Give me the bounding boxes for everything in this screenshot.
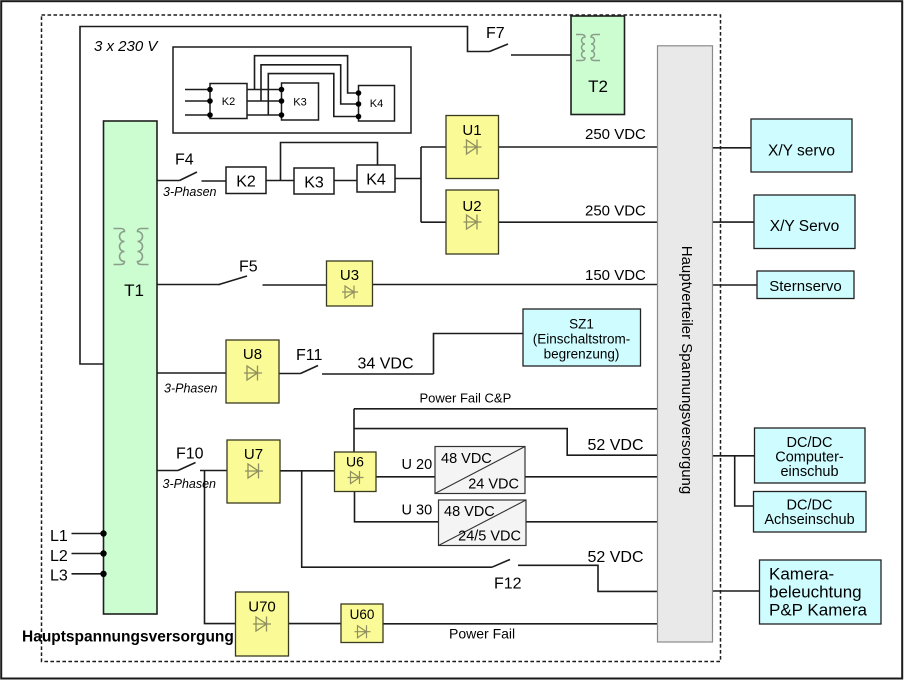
svg-text:K4: K4 xyxy=(370,98,383,110)
svg-text:SZ1: SZ1 xyxy=(569,317,594,332)
svg-text:F5: F5 xyxy=(239,259,258,276)
svg-text:250 VDC: 250 VDC xyxy=(585,203,646,220)
wire: F10 junction down to U70 xyxy=(205,471,236,624)
svg-text:48 VDC: 48 VDC xyxy=(441,451,492,467)
dashed enclosure border xyxy=(42,15,721,662)
svg-text:X/Y Servo: X/Y Servo xyxy=(770,218,840,235)
wire: junction down to F12 xyxy=(302,471,492,567)
contactor K3 xyxy=(294,168,334,194)
relay logic sub-box xyxy=(173,47,411,133)
svg-text:U70: U70 xyxy=(248,599,276,616)
wire: distributor to DC/DC einschub branch xyxy=(713,456,755,506)
svg-text:150 VDC: 150 VDC xyxy=(585,267,646,284)
switch F5 blade xyxy=(219,276,247,285)
wire: U1 to distributor xyxy=(499,146,658,148)
svg-text:250 VDC: 250 VDC xyxy=(585,126,646,143)
svg-text:U2: U2 xyxy=(462,198,481,215)
svg-text:F11: F11 xyxy=(296,347,322,364)
svg-text:3-Phasen: 3-Phasen xyxy=(163,477,217,491)
wire: distributor to X/Y servo xyxy=(713,147,752,149)
wire: U2 to distributor xyxy=(499,221,658,223)
wire: F7 to T2 xyxy=(511,54,571,56)
svg-text:K3: K3 xyxy=(293,97,306,109)
svg-text:beleuchtung: beleuchtung xyxy=(769,583,862,602)
load X/Y servo xyxy=(751,119,852,172)
svg-text:K3: K3 xyxy=(304,175,324,192)
load DC/DC Achseinschub xyxy=(754,492,867,533)
wire: T1 to F4 xyxy=(157,180,180,182)
svg-text:52 VDC: 52 VDC xyxy=(588,437,644,454)
svg-text:X/Y servo: X/Y servo xyxy=(768,143,835,160)
wire: 3x230V feed from T1 left up and across top to F7 xyxy=(80,27,490,365)
wire: sub inputs to K2a xyxy=(185,90,210,116)
load X/Y Servo xyxy=(754,195,855,249)
svg-text:K4: K4 xyxy=(366,172,386,189)
rectifier U6 xyxy=(335,452,377,492)
load Sternservo xyxy=(757,271,854,299)
relay K3 upper xyxy=(282,83,319,120)
svg-text:K2: K2 xyxy=(236,174,256,191)
load Kamerabeleuchtung P&P Kamera xyxy=(760,560,882,624)
wire: U3 to distributor xyxy=(373,284,658,286)
wire: T1 to F10 xyxy=(157,470,178,472)
wire: distributor to X/Y Servo 2 xyxy=(713,221,755,223)
svg-text:U 30: U 30 xyxy=(402,503,433,519)
DC/DC converter U30 48/24/5 VDC xyxy=(439,500,527,546)
wire: K2 to K3 xyxy=(266,180,294,182)
svg-text:Hauptverteiler Spannungsversor: Hauptverteiler Spannungsversorgung xyxy=(678,246,695,495)
wire: bypass over K4 xyxy=(281,143,378,181)
wire: L3 input xyxy=(72,573,104,575)
svg-text:F12: F12 xyxy=(494,576,522,593)
junction dots upper relay box xyxy=(207,87,361,120)
rectifier U3 xyxy=(327,261,373,306)
relay K4 upper xyxy=(359,86,395,122)
switch F10 blade xyxy=(178,463,196,471)
wire: U6 to U20 converter xyxy=(376,476,435,478)
contactor K4 xyxy=(357,165,395,192)
contactor K2 xyxy=(226,167,266,194)
svg-text:F7: F7 xyxy=(486,25,505,42)
svg-text:L2: L2 xyxy=(50,548,68,565)
rectifier U7 xyxy=(227,440,280,503)
wire: K4 to U1/U2 branch xyxy=(395,147,446,222)
wire: F12 to distributor 52 VDC xyxy=(518,565,658,591)
svg-text:T1: T1 xyxy=(124,281,144,300)
wire: Power Fail C&P line xyxy=(354,409,658,452)
rectifier U60 xyxy=(341,604,383,643)
rectifier U8 xyxy=(226,340,279,403)
svg-text:Achseinschub: Achseinschub xyxy=(764,512,854,528)
svg-text:52 VDC: 52 VDC xyxy=(588,549,644,566)
wire: U60 Power Fail to distributor xyxy=(383,623,658,625)
svg-text:P&P Kamera: P&P Kamera xyxy=(769,601,868,620)
wire: F5 to U3 xyxy=(263,284,327,286)
svg-text:(Einschaltstrom-: (Einschaltstrom- xyxy=(533,332,631,347)
wire: U70 to U60 xyxy=(289,623,342,625)
svg-text:Kamera-: Kamera- xyxy=(769,565,834,584)
wire: K3 to K4 xyxy=(334,180,357,182)
wire: F4 to K2 xyxy=(202,180,227,182)
switch F4 blade xyxy=(180,172,198,181)
svg-text:begrenzung): begrenzung) xyxy=(544,347,620,362)
svg-text:U8: U8 xyxy=(243,346,262,363)
wire: U8 to F11 xyxy=(279,373,301,375)
svg-text:Power Fail: Power Fail xyxy=(449,626,515,642)
node dots L1 L2 L3 at T1 xyxy=(100,530,106,577)
svg-text:Sternservo: Sternservo xyxy=(769,278,842,295)
svg-text:U7: U7 xyxy=(244,446,263,463)
wire: F10 to U7 xyxy=(200,470,227,472)
svg-text:U60: U60 xyxy=(350,607,375,622)
svg-text:24/5 VDC: 24/5 VDC xyxy=(458,529,521,545)
svg-text:Power Fail C&P: Power Fail C&P xyxy=(420,391,512,406)
switch F7 blade xyxy=(490,44,509,52)
svg-text:L1: L1 xyxy=(50,528,68,545)
relay K2 upper xyxy=(210,84,247,119)
svg-text:48 VDC: 48 VDC xyxy=(444,504,495,520)
svg-text:3-Phasen: 3-Phasen xyxy=(164,382,218,396)
wire: riser top to K4a xyxy=(255,56,359,93)
wire: distributor to Sternservo xyxy=(713,284,758,286)
wire: F11 to SZ1 xyxy=(322,334,523,375)
svg-text:L3: L3 xyxy=(50,568,68,585)
svg-text:F4: F4 xyxy=(175,152,194,169)
wire: K2a to K3a lines xyxy=(247,90,282,116)
switch F11 blade xyxy=(301,366,319,374)
svg-text:U3: U3 xyxy=(340,267,359,284)
switch F12 blade xyxy=(492,560,510,568)
svg-text:34 VDC: 34 VDC xyxy=(358,356,414,373)
rectifier U70 xyxy=(236,592,289,656)
wire: U7 to U6 xyxy=(280,470,335,472)
svg-text:T2: T2 xyxy=(588,77,608,96)
svg-text:24 VDC: 24 VDC xyxy=(468,477,519,493)
wire: L2 input xyxy=(72,553,104,555)
wire: T1 to F5 xyxy=(157,284,220,286)
distributor bar Hauptverteiler Spannungsversorgung xyxy=(658,46,713,642)
svg-text:U6: U6 xyxy=(346,454,364,470)
svg-text:3-Phasen: 3-Phasen xyxy=(163,185,217,199)
wire: U6 down to U30 converter xyxy=(355,492,439,522)
wire: U30 converter to distributor xyxy=(526,521,658,523)
transformer T1 xyxy=(104,121,158,614)
svg-text:einschub: einschub xyxy=(780,464,838,480)
svg-text:U 20: U 20 xyxy=(402,457,433,473)
inrush limiter SZ1 xyxy=(523,309,641,366)
svg-text:F10: F10 xyxy=(176,446,204,463)
load DC/DC Computereinschub xyxy=(755,428,866,483)
wire: riser bottom to K4a xyxy=(268,74,358,117)
rectifier U2 xyxy=(446,190,499,254)
wire: U20 converter to distributor xyxy=(525,476,658,478)
svg-text:U1: U1 xyxy=(462,122,481,139)
wire: L1 input xyxy=(72,533,104,535)
wire: 52 VDC upper line xyxy=(354,429,658,456)
wire: distributor to Kamera xyxy=(713,590,760,592)
rectifier U1 xyxy=(446,116,499,179)
transformer T2 xyxy=(571,16,625,115)
DC/DC converter U20 48/24 VDC xyxy=(435,447,525,494)
svg-text:3 x 230 V: 3 x 230 V xyxy=(94,38,159,55)
svg-text:K2: K2 xyxy=(222,96,235,108)
wire: riser mid to K4a xyxy=(261,65,359,104)
wire: T1 to U8 xyxy=(157,372,226,374)
svg-text:Hauptspannungsversorgung: Hauptspannungsversorgung xyxy=(22,629,234,646)
